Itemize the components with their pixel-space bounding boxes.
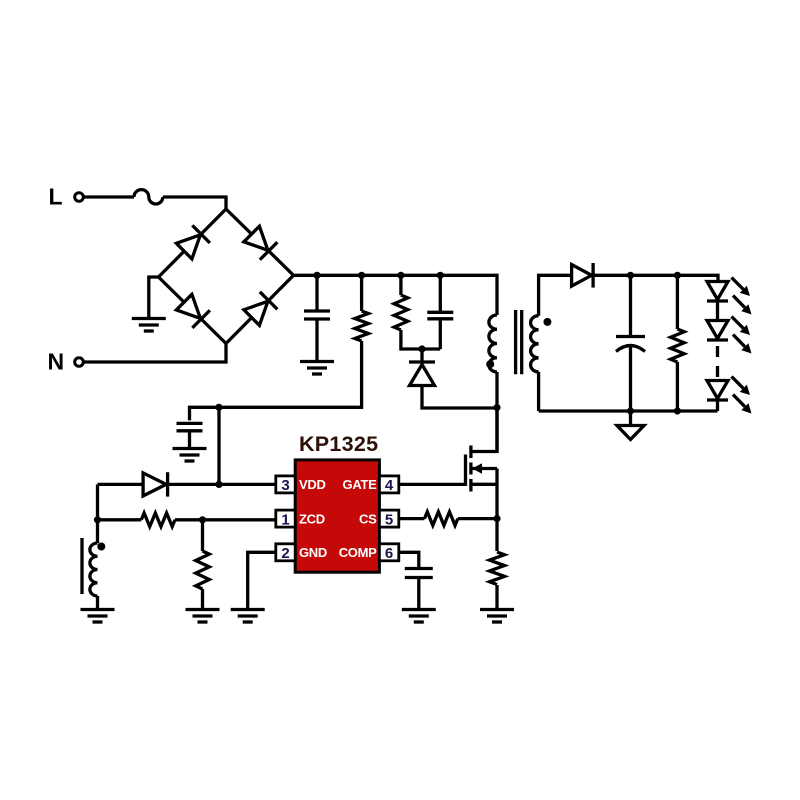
wire rail to R1 bbox=[360, 275, 363, 311]
capacitor C3 bbox=[427, 312, 453, 319]
wire left column bbox=[96, 484, 99, 543]
diode D1 bridge upper-left bbox=[175, 225, 210, 260]
wire source stub bbox=[471, 483, 497, 486]
ground C1 bbox=[300, 362, 334, 375]
resistor R5 divider bbox=[196, 551, 210, 589]
node primary bottom bbox=[493, 404, 500, 411]
pin 6 box bbox=[379, 544, 398, 562]
capacitor C2 bbox=[177, 423, 203, 430]
wire ZCD to pin1 bbox=[175, 518, 276, 521]
core T1 bar right bbox=[520, 310, 523, 374]
svg-text:5: 5 bbox=[385, 511, 393, 528]
led LED2 bbox=[707, 321, 728, 341]
wire output rail bbox=[595, 275, 719, 281]
wire secondary bottom bbox=[537, 372, 540, 411]
wire N to bridge bottom bbox=[84, 344, 227, 363]
ground bridge negative bbox=[132, 319, 166, 332]
capacitor C4 curved plate bbox=[616, 346, 645, 352]
wire C3 to junction bbox=[439, 319, 442, 349]
wire DC rail bbox=[294, 275, 498, 315]
inductor T1 secondary winding bbox=[531, 316, 539, 372]
wire fuse to bridge top bbox=[163, 197, 226, 209]
led LED1 bbox=[707, 282, 728, 302]
emission arrows LED1 bbox=[732, 278, 752, 315]
svg-text:COMP: COMP bbox=[339, 545, 377, 560]
resistor R1 bbox=[355, 311, 369, 341]
wire C4 to bottom rail bbox=[629, 346, 632, 411]
svg-text:N: N bbox=[48, 349, 65, 375]
diode D3 bridge lower-left bbox=[175, 293, 210, 328]
chassis ground output bbox=[617, 426, 644, 440]
op-amp U1 KP1325 body bbox=[295, 460, 379, 572]
terminal N bbox=[75, 358, 84, 367]
wire pin4 to gate bbox=[399, 483, 466, 486]
resistor R7 sense bbox=[490, 552, 505, 585]
wire bottom rail to chassis ground bbox=[629, 411, 632, 426]
wire junction to D5 bbox=[420, 349, 423, 362]
svg-text:GND: GND bbox=[299, 545, 327, 560]
node startup junction bbox=[215, 404, 222, 411]
diode D4 bridge lower-right bbox=[243, 292, 278, 327]
polarity dot secondary bbox=[543, 318, 551, 326]
node rail R1 bbox=[358, 272, 365, 279]
capacitor C5 COMP bbox=[405, 569, 433, 578]
resistor R6 CS bbox=[425, 512, 458, 526]
terminal L bbox=[75, 193, 84, 202]
wire bridge edge lower-right bbox=[226, 275, 294, 343]
wire R7 to ground bbox=[495, 585, 498, 610]
wire secondary top bbox=[539, 275, 572, 315]
inductor L2 aux winding bbox=[90, 543, 98, 596]
node VDD junction bbox=[215, 481, 222, 488]
diode D2 bridge upper-right bbox=[243, 225, 278, 260]
pin 4 box bbox=[379, 476, 398, 494]
node rail C3 bbox=[437, 272, 444, 279]
node rail C1 bbox=[313, 272, 320, 279]
wire VDD diode to pin3 bbox=[168, 483, 276, 486]
polarity dot primary bbox=[486, 360, 494, 368]
wire pin5 to R6 bbox=[399, 517, 425, 520]
node ZCD divider bbox=[199, 516, 206, 523]
label L bbox=[49, 184, 63, 210]
wire R6 to source bbox=[458, 517, 497, 520]
wire rail to R3 bbox=[676, 275, 679, 329]
node rail R2 bbox=[397, 272, 404, 279]
wire R2 to snubber junction bbox=[401, 330, 440, 349]
pin 1 box bbox=[276, 510, 295, 528]
wire VDD junction up bbox=[217, 407, 220, 484]
wire dashed LED2 to LED3 bbox=[716, 346, 719, 380]
resistor R4 ZCD bbox=[141, 513, 175, 527]
transistor Q1 channel segments bbox=[469, 446, 472, 492]
svg-text:3: 3 bbox=[281, 477, 289, 494]
svg-text:4: 4 bbox=[385, 477, 394, 494]
wire ZCD left segment bbox=[98, 518, 142, 521]
wire output bottom rail bbox=[539, 409, 718, 412]
wire LED1 to LED2 bbox=[716, 301, 719, 321]
resistor R2 bbox=[394, 295, 408, 330]
ground aux winding bbox=[81, 610, 115, 623]
capacitor C4 plus plate bbox=[616, 335, 645, 338]
wire LED3 to bottom rail bbox=[716, 400, 719, 411]
pin label ZCD bbox=[299, 511, 325, 526]
diode D5 snubber bbox=[409, 362, 435, 386]
wire R1 to VDD cap bbox=[190, 341, 362, 420]
resistor R3 bbox=[671, 329, 685, 362]
wire rail to C1 bbox=[315, 275, 318, 311]
wire rail to R2 bbox=[399, 275, 402, 295]
wire bridge edge upper-right bbox=[226, 209, 294, 275]
wire divider down bbox=[201, 520, 204, 551]
wire pin6 to C5 bbox=[399, 552, 419, 569]
ground C2 bbox=[173, 449, 207, 462]
pin 3 box bbox=[276, 476, 295, 494]
wire rail to C3 bbox=[439, 275, 442, 312]
core T1 bar left bbox=[514, 310, 517, 374]
svg-text:CS: CS bbox=[359, 511, 377, 526]
ground R5 bbox=[186, 610, 220, 623]
fuse F1 bbox=[134, 190, 163, 204]
polarity dot aux bbox=[97, 543, 105, 551]
svg-text:ZCD: ZCD bbox=[299, 511, 325, 526]
wire D5 to primary bottom bbox=[422, 386, 497, 409]
wire drain stub bbox=[471, 408, 497, 452]
label KP1325 bbox=[299, 432, 379, 456]
core L2 bar bbox=[80, 538, 83, 594]
ground pin2 bbox=[231, 610, 265, 623]
svg-text:6: 6 bbox=[385, 545, 393, 562]
led LED3 bbox=[707, 381, 728, 401]
node bottom R3 bbox=[674, 407, 681, 414]
transistor Q1 body arrow bbox=[471, 463, 497, 473]
svg-text:VDD: VDD bbox=[299, 477, 326, 492]
transistor Q1 gate bar bbox=[464, 455, 467, 486]
wire R3 to bottom rail bbox=[676, 362, 679, 411]
pin label VDD bbox=[299, 477, 326, 492]
wire bridge edge upper-left bbox=[159, 209, 227, 277]
node output R3 bbox=[674, 272, 681, 279]
wire L to fuse bbox=[84, 195, 135, 198]
node bottom C4 bbox=[627, 407, 634, 414]
node output C4 bbox=[627, 272, 634, 279]
ground R7 bbox=[480, 610, 514, 623]
svg-text:GATE: GATE bbox=[343, 477, 378, 492]
svg-text:1: 1 bbox=[281, 511, 289, 528]
pin label GATE bbox=[343, 477, 378, 492]
wire aux to ground bbox=[96, 596, 99, 610]
wire pin2 GND bbox=[248, 552, 276, 609]
inductor T1 primary winding bbox=[489, 315, 497, 372]
wire R5 to ground bbox=[201, 589, 204, 610]
wire source down bbox=[495, 469, 498, 552]
pin label CS bbox=[359, 511, 377, 526]
node ZCD left bbox=[94, 516, 101, 523]
wire primary to drain bbox=[495, 372, 498, 452]
capacitor C1 bbox=[304, 311, 330, 319]
wire bridge left to ground bbox=[149, 277, 159, 319]
wire C1 to ground bbox=[315, 319, 318, 362]
wire C5 to ground bbox=[417, 578, 420, 610]
pin label COMP bbox=[339, 545, 377, 560]
label N bbox=[48, 349, 65, 375]
diode D6 output bbox=[572, 263, 594, 288]
emission arrows LED2 bbox=[732, 317, 752, 354]
diode D7 VDD bbox=[143, 472, 168, 496]
pin label GND bbox=[299, 545, 327, 560]
node snubber junction bbox=[418, 345, 425, 352]
wire C2 to ground bbox=[188, 431, 191, 449]
wire rail to C4 bbox=[629, 275, 632, 336]
pin 5 box bbox=[379, 510, 398, 528]
svg-text:L: L bbox=[49, 184, 63, 210]
svg-text:KP1325: KP1325 bbox=[299, 432, 379, 456]
wire bridge edge lower-left bbox=[159, 277, 227, 344]
node CS sense bbox=[493, 515, 500, 522]
svg-text:2: 2 bbox=[281, 545, 289, 562]
wire VDD line left bbox=[98, 483, 144, 486]
ground C5 bbox=[402, 610, 436, 623]
pin 2 box bbox=[276, 544, 295, 562]
emission arrows LED3 bbox=[732, 377, 752, 414]
